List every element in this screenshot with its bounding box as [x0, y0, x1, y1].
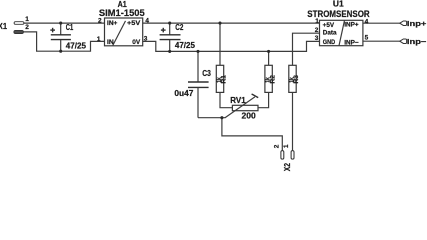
- svg-text:3: 3: [315, 35, 319, 42]
- wire X1 pin2 to A1 IN: [23, 32, 104, 51]
- resistor R2: [258, 51, 272, 107]
- svg-text:5: 5: [365, 35, 369, 42]
- junction node C2 top: [168, 22, 171, 25]
- resistor R3: [289, 65, 296, 92]
- wire C3 bottom to wiper node: [198, 117, 226, 119]
- svg-text:47/25: 47/25: [66, 42, 87, 51]
- svg-text:3: 3: [144, 36, 148, 43]
- junction node C1 top: [59, 22, 62, 25]
- svg-text:SIM1-1505: SIM1-1505: [99, 8, 145, 19]
- svg-text:U1: U1: [333, 0, 344, 9]
- wire R3 bottom to X2 pin1: [292, 92, 294, 150]
- svg-text:1: 1: [25, 16, 29, 23]
- svg-text:C2: C2: [175, 23, 184, 32]
- svg-text:INP−: INP−: [344, 40, 359, 47]
- junction node C2 bottom: [168, 50, 171, 53]
- wire GND rail A1 0V to U1 GND: [143, 41, 320, 51]
- potentiometer RV1: [225, 94, 258, 118]
- svg-text:+5V: +5V: [127, 20, 141, 27]
- wire U1 Data to R3 top: [293, 33, 320, 65]
- svg-text:R3: R3: [294, 74, 300, 83]
- resistor R1: [216, 23, 232, 108]
- flag Inp-: [400, 39, 407, 44]
- svg-text:4: 4: [365, 19, 369, 26]
- svg-text:2: 2: [274, 144, 281, 148]
- svg-text:Inp−: Inp−: [407, 37, 427, 46]
- junction node C3 top: [196, 50, 199, 53]
- svg-text:200: 200: [242, 112, 257, 121]
- svg-text:C3: C3: [202, 69, 211, 78]
- wire +5V rail from X1 pin1 through A1 to U1 pin1: [24, 22, 320, 24]
- svg-text:2: 2: [25, 24, 29, 31]
- connector X2 pin 1 pad: [291, 151, 294, 160]
- svg-text:IN+: IN+: [107, 20, 118, 27]
- junction node R1 top: [218, 22, 221, 25]
- connector X2 pin 2 pad: [281, 151, 284, 160]
- svg-text:2: 2: [315, 27, 319, 34]
- current sensor U1 box: [320, 20, 363, 45]
- svg-text:R1: R1: [222, 74, 228, 83]
- junction node C1 bottom: [59, 50, 62, 53]
- svg-text:1: 1: [315, 18, 319, 25]
- wire wiper node to X2 pin2: [222, 118, 282, 151]
- svg-text:C1: C1: [66, 23, 74, 32]
- svg-text:2: 2: [98, 17, 102, 24]
- dc-dc converter A1 box: [105, 18, 143, 46]
- capacitor C3: [188, 51, 209, 117]
- junction node wiper: [220, 116, 223, 119]
- wire U1 INP- to flag Inp-: [363, 40, 400, 42]
- svg-text:47/25: 47/25: [175, 41, 196, 50]
- svg-text:R2: R2: [270, 74, 276, 83]
- svg-text:+5V: +5V: [323, 22, 335, 29]
- svg-text:X1: X1: [0, 22, 8, 31]
- svg-text:GND: GND: [323, 39, 336, 46]
- svg-text:0u47: 0u47: [174, 88, 193, 98]
- svg-text:X2: X2: [283, 163, 292, 172]
- capacitor C1: [50, 23, 71, 51]
- svg-text:Data: Data: [323, 30, 337, 37]
- connector X1 pin 2 pad: [14, 30, 24, 33]
- connector X1 pin 1 pad: [14, 22, 24, 25]
- svg-text:1: 1: [97, 36, 101, 43]
- capacitor C2: [160, 23, 181, 51]
- svg-text:Inp+: Inp+: [407, 19, 427, 28]
- svg-text:IN: IN: [107, 39, 114, 46]
- wire U1 INP+ to flag Inp+: [363, 22, 400, 24]
- svg-text:RV1: RV1: [230, 95, 246, 105]
- svg-text:INP+: INP+: [344, 22, 359, 29]
- flag Inp+: [400, 21, 407, 26]
- svg-text:0V: 0V: [132, 39, 141, 46]
- junction node R2 top: [267, 50, 270, 53]
- svg-text:1: 1: [283, 144, 290, 148]
- svg-text:4: 4: [145, 17, 149, 24]
